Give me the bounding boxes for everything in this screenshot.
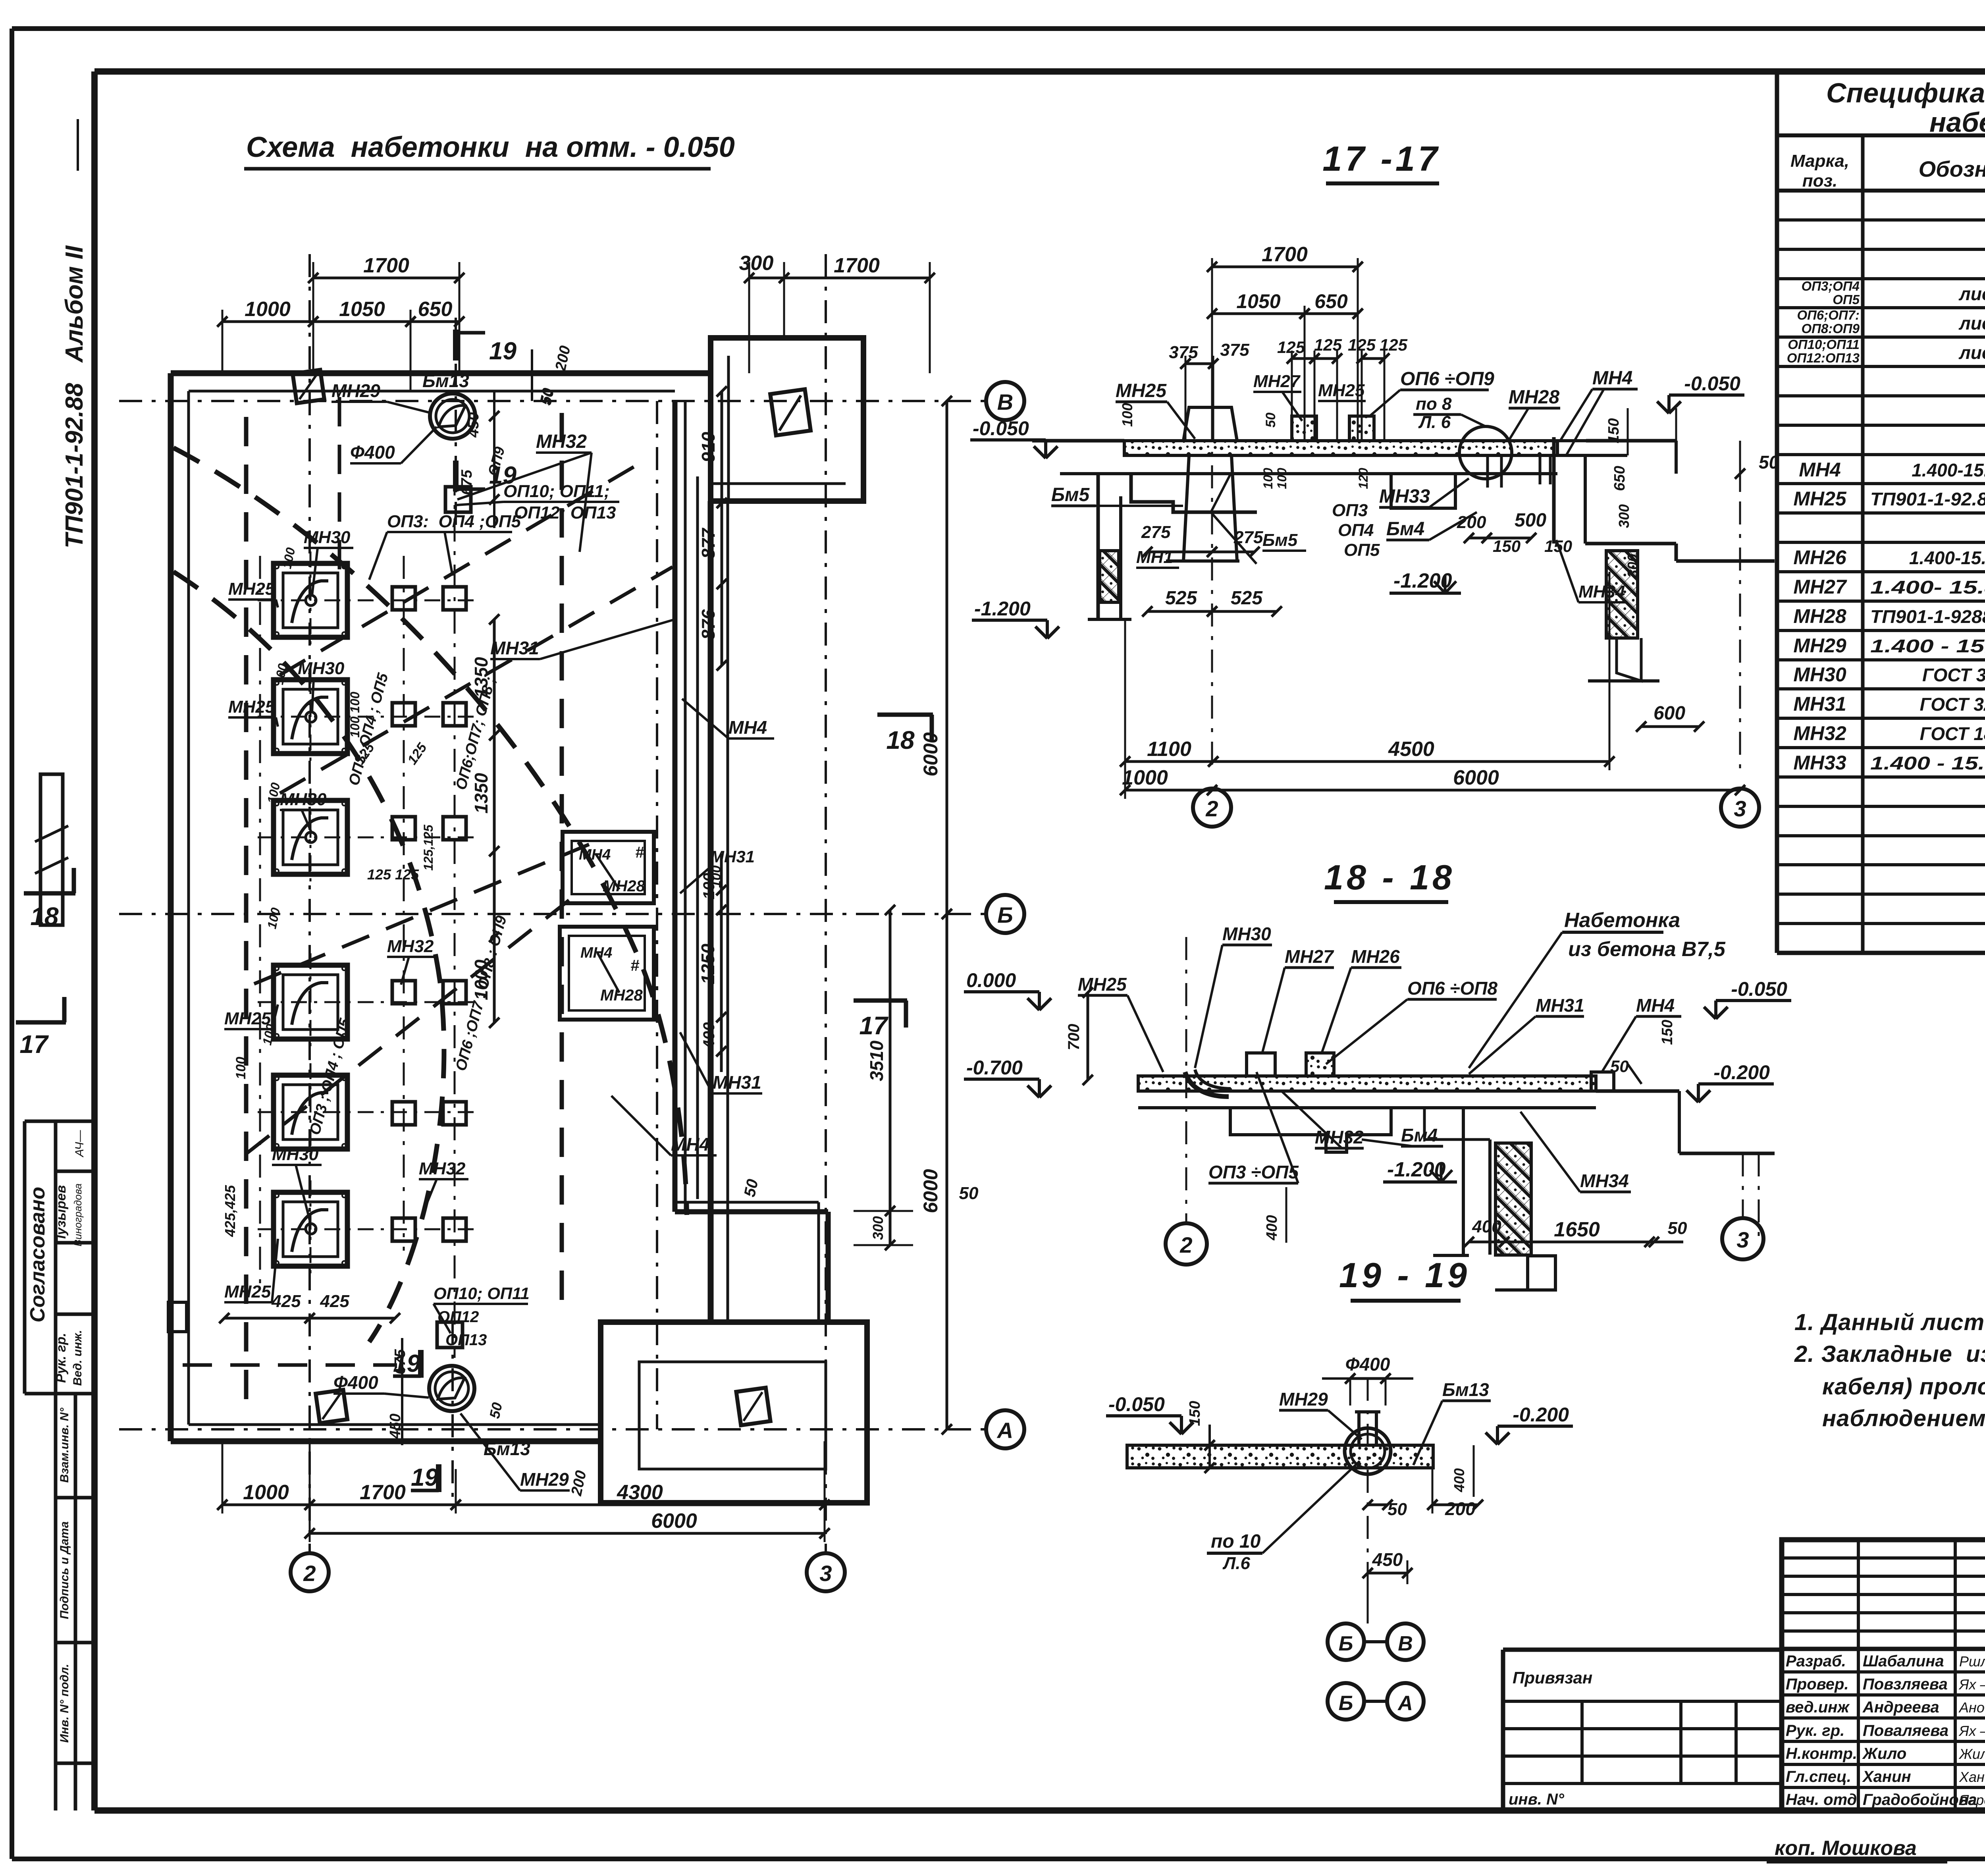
svg-text:Вед. инж.: Вед. инж. (71, 1330, 84, 1386)
svg-text:675: 675 (459, 469, 475, 495)
svg-text:425 425: 425 425 (271, 1292, 349, 1311)
bottom dimension chains (222, 1504, 310, 1506)
svg-text:МН25: МН25 (228, 579, 275, 599)
svg-text:525: 525 (1165, 588, 1197, 609)
svg-text:В: В (1398, 1632, 1413, 1655)
svg-text:19: 19 (393, 1350, 420, 1377)
svg-text:МН30: МН30 (304, 528, 351, 547)
svg-text:ОП5: ОП5 (1344, 540, 1380, 560)
svg-text:Ф400: Ф400 (1345, 1354, 1390, 1375)
svg-text:МН25: МН25 (224, 1009, 271, 1028)
МН29 pipe top (Ф400) (430, 393, 475, 439)
svg-text:120: 120 (1356, 468, 1370, 489)
svg-text:Пузырев: Пузырев (54, 1185, 69, 1245)
18-18 slab (1138, 1076, 1596, 1091)
svg-text:МН28: МН28 (600, 987, 643, 1004)
svg-text:50: 50 (1759, 452, 1779, 472)
pad on top wall left (293, 370, 324, 403)
svg-text:Ях —: Ях — (1958, 1676, 1985, 1693)
svg-text:525: 525 (1231, 588, 1263, 609)
svg-text:18: 18 (886, 726, 915, 754)
svg-text:17: 17 (859, 1011, 889, 1040)
svg-text:МН30: МН30 (1222, 924, 1271, 944)
svg-text:1700: 1700 (363, 254, 409, 277)
svg-text:Виноградова: Виноградова (72, 1184, 84, 1247)
svg-text:МН1: МН1 (1136, 548, 1173, 567)
450 dim (1368, 1572, 1407, 1575)
svg-text:МН32: МН32 (536, 431, 587, 452)
svg-text:Провер.: Провер. (1786, 1675, 1849, 1693)
svg-text:ОП3: ОП4 ;ОП5: ОП3: ОП4 ;ОП5 (387, 512, 521, 531)
right top ledge -0.050 (1586, 439, 1676, 443)
svg-text:1050: 1050 (1236, 290, 1280, 312)
plan outer walls (171, 370, 711, 376)
svg-text:Поваляева: Поваляева (1863, 1722, 1948, 1739)
svg-text:17 -17: 17 -17 (1322, 139, 1441, 178)
svg-text:МН28: МН28 (603, 877, 645, 895)
pad ОП10 bottom (437, 1322, 463, 1348)
svg-text:Схема набетонки на отм. - 0.: Схема набетонки на отм. - 0.050 (246, 131, 735, 163)
svg-text:Бм4: Бм4 (1386, 519, 1424, 540)
svg-text:200: 200 (1457, 513, 1486, 532)
svg-text:-0.050: -0.050 (973, 417, 1029, 440)
embedded frame МН25 #2 (274, 680, 347, 754)
svg-text:400: 400 (1472, 1217, 1501, 1236)
svg-text:Шабалина: Шабалина (1863, 1652, 1944, 1670)
17-17 top dims (1212, 266, 1358, 268)
svg-text:1050: 1050 (339, 298, 385, 321)
svg-text:МН32: МН32 (1793, 722, 1846, 744)
svg-text:1700: 1700 (1262, 243, 1308, 266)
svg-text:кабеля) проложить в набетонке: кабеля) проложить в набетонке на отм. -0… (1822, 1374, 1985, 1400)
svg-text:300: 300 (739, 252, 774, 275)
chain 6000/6000 (946, 401, 948, 1429)
svg-text:ОП10;ОП11: ОП10;ОП11 (1788, 337, 1860, 352)
svg-text:МН25: МН25 (1116, 380, 1167, 401)
svg-text:поз.: поз. (1802, 171, 1837, 191)
svg-text:МН25: МН25 (228, 697, 275, 717)
axis 3 (825, 254, 827, 1553)
svg-text:-1.200: -1.200 (974, 598, 1031, 620)
svg-text:ОП3: ОП3 (1332, 501, 1368, 520)
svg-text:Подпись и Дата: Подпись и Дата (58, 1521, 71, 1619)
svg-text:700: 700 (1065, 1024, 1083, 1051)
svg-text:ГОСТ 18599-83 *: ГОСТ 18599-83 * (1920, 723, 1985, 744)
svg-text:АЧ—: АЧ— (73, 1130, 86, 1158)
svg-text:Бм13: Бм13 (422, 370, 469, 391)
svg-text:50: 50 (1668, 1219, 1687, 1238)
dashed cable diagonals МН32 (280, 461, 643, 675)
svg-text:МН4: МН4 (1636, 995, 1675, 1016)
left margin inventory stamp (54, 1394, 58, 1810)
axis A (119, 1428, 986, 1431)
svg-text:Обозначение: Обозначение (1919, 156, 1985, 181)
pad in top-right wing (770, 389, 811, 435)
svg-text:1.400 - 15.81. 210 - 04: 1.400 - 15.81. 210 - 04 (1870, 753, 1985, 773)
svg-text:4300: 4300 (617, 1481, 663, 1504)
svg-text:Бм5: Бм5 (1051, 484, 1090, 505)
МН25 column centerline (259, 556, 261, 1290)
svg-text:125 125: 125 125 (367, 866, 419, 883)
БМ5 step under slab (1131, 474, 1257, 512)
svg-text:Гл.спец.: Гл.спец. (1786, 1768, 1851, 1785)
svg-text:Рук. гр.: Рук. гр. (1786, 1722, 1844, 1739)
embedded frame МН25 #3 (274, 800, 347, 874)
right vertical chain 910/877/876 (721, 391, 723, 665)
svg-text:ОП13: ОП13 (445, 1331, 487, 1349)
svg-text:#: # (635, 844, 644, 861)
svg-text:МН27: МН27 (1793, 576, 1847, 598)
svg-text:1.400- 15.81. 130 -19: 1.400- 15.81. 130 -19 (1870, 577, 1985, 598)
left end: levels (964, 990, 1039, 993)
svg-text:1. Данный лист рассматривать с: 1. Данный лист рассматривать совместно с… (1794, 1309, 1985, 1335)
svg-text:1700: 1700 (360, 1481, 406, 1504)
svg-text:МН32: МН32 (419, 1159, 466, 1178)
svg-text:100: 100 (1119, 403, 1135, 427)
bottom-right wing (601, 1322, 867, 1503)
svg-text:Бм13: Бм13 (484, 1438, 530, 1459)
svg-text:МН33: МН33 (1793, 752, 1846, 774)
svg-text:МН4: МН4 (580, 945, 612, 961)
svg-text:6000: 6000 (1453, 766, 1499, 789)
svg-text:1000: 1000 (1122, 766, 1168, 789)
svg-text:375: 375 (1220, 340, 1249, 360)
svg-text:ГОСТ 3262 - 75 *: ГОСТ 3262 - 75 * (1920, 694, 1985, 715)
svg-text:1250: 1250 (698, 943, 718, 984)
left wall below grade (1097, 474, 1100, 619)
ОП curb bumps (1292, 416, 1316, 441)
svg-text:200: 200 (1445, 1498, 1476, 1519)
svg-text:МН25: МН25 (1318, 381, 1365, 400)
niche on left wall (168, 1302, 187, 1332)
svg-text:МН33: МН33 (1379, 486, 1430, 507)
svg-text:1650: 1650 (1554, 1218, 1600, 1241)
svg-text:МН34: МН34 (1580, 1170, 1629, 1191)
svg-text:400: 400 (1451, 1468, 1467, 1492)
svg-text:-0.700: -0.700 (966, 1057, 1023, 1079)
svg-text:Нач. отд: Нач. отд (1786, 1791, 1857, 1809)
callout circle (1459, 426, 1512, 479)
svg-text:150: 150 (1493, 537, 1521, 555)
svg-text:2: 2 (1179, 1232, 1192, 1257)
top dimension chains (313, 277, 459, 280)
svg-text:МН28: МН28 (1509, 387, 1559, 408)
svg-text:ТП901-1-9288-КЖИ1-ЩП15: ТП901-1-9288-КЖИ1-ЩП15 (1870, 606, 1985, 627)
svg-text:ОП12:ОП13: ОП12:ОП13 (1787, 351, 1860, 365)
svg-text:МН30: МН30 (1793, 663, 1846, 686)
svg-text:1350: 1350 (471, 773, 491, 814)
svg-text:В: В (997, 389, 1013, 415)
svg-text:450: 450 (1372, 1549, 1403, 1570)
svg-text:150: 150 (1187, 1401, 1203, 1426)
svg-text:50: 50 (1263, 413, 1278, 428)
svg-text:набетонки на отм. 0.000: набетонки на отм. 0.000 (1929, 107, 1985, 138)
axis B (В) (119, 400, 986, 402)
svg-text:17: 17 (19, 1030, 49, 1059)
svg-text:ОП10; ОП11;: ОП10; ОП11; (503, 482, 610, 501)
svg-text:лист 5: лист 5 (1958, 342, 1985, 363)
main drawing frame (94, 68, 1985, 75)
svg-text:-0.050: -0.050 (1684, 372, 1740, 395)
embedded frame МН25 #1 (274, 563, 347, 637)
svg-text:1000: 1000 (243, 1481, 289, 1504)
centerline axis 2 (1211, 373, 1213, 770)
axis circles 2 3 of section (1193, 789, 1231, 827)
svg-text:Жило: Жило (1862, 1745, 1906, 1762)
svg-text:инв. N°: инв. N° (1509, 1791, 1565, 1808)
svg-text:100: 100 (1275, 468, 1289, 489)
svg-text:300: 300 (1616, 504, 1632, 528)
svg-text:Набетонка: Набетонка (1564, 909, 1680, 932)
svg-text:Повзляева: Повзляева (1863, 1675, 1948, 1693)
title block (1782, 1540, 1985, 1810)
axis 2 centerline (1185, 937, 1187, 1223)
svg-text:ОП8:ОП9: ОП8:ОП9 (1801, 321, 1860, 336)
svg-text:500: 500 (1515, 510, 1546, 531)
МН28 pads with labels (563, 832, 654, 903)
svg-text:Ф400: Ф400 (350, 442, 395, 463)
svg-text:-0.200: -0.200 (1513, 1404, 1569, 1426)
svg-text:ОП5: ОП5 (1833, 292, 1860, 307)
svg-text:Л. 6: Л. 6 (1418, 413, 1451, 432)
svg-text:ОП4: ОП4 (1338, 521, 1374, 540)
svg-text:Ях —: Ях — (1958, 1723, 1985, 1739)
МН4 end plate (1591, 1072, 1614, 1091)
svg-text:МН30: МН30 (298, 659, 345, 678)
svg-text:650: 650 (418, 298, 453, 321)
svg-text:150: 150 (1659, 1020, 1676, 1045)
svg-text:50: 50 (741, 1178, 761, 1199)
svg-text:100: 100 (1261, 468, 1275, 489)
svg-text:-0.050: -0.050 (1731, 978, 1787, 1000)
bottom dims 17-17 (1125, 760, 1213, 763)
bottom small dims 675 450 50 200 (401, 1338, 403, 1445)
embedded frame МН25 #4 (274, 965, 347, 1039)
top-right wing (711, 338, 863, 501)
pad near МН29 top (445, 487, 471, 512)
left side pit rectangle (40, 774, 63, 925)
svg-text:425,425: 425,425 (222, 1185, 238, 1237)
svg-text:МН34: МН34 (1578, 582, 1625, 602)
svg-text:18 - 18: 18 - 18 (1324, 858, 1455, 897)
right under-structure with pit (1462, 1108, 1465, 1255)
svg-text:Жил,: Жил, (1958, 1746, 1985, 1762)
svg-text:400: 400 (1264, 1215, 1280, 1240)
svg-text:876: 876 (698, 609, 719, 640)
svg-text:ОП3;ОП4: ОП3;ОП4 (1801, 279, 1860, 293)
svg-text:Инв. N° подл.: Инв. N° подл. (58, 1664, 71, 1743)
svg-text:2. Закладные изделия МН30 ; М: 2. Закладные изделия МН30 ; МН31 ; МН32 … (1794, 1341, 1985, 1367)
svg-text:Бм5: Бм5 (1262, 530, 1298, 550)
outer page border (12, 26, 1985, 31)
svg-text:Марка,: Марка, (1790, 151, 1849, 171)
svg-text:1.400-15.81.550-06: 1.400-15.81.550-06 (1912, 460, 1985, 480)
svg-text:МН30: МН30 (272, 1145, 319, 1164)
svg-text:1000: 1000 (245, 298, 291, 321)
section mark 19 top (453, 330, 459, 361)
svg-text:300: 300 (1625, 554, 1641, 578)
left ledge and -0.050 level (1032, 439, 1124, 443)
svg-text:МН25: МН25 (1078, 974, 1127, 995)
svg-text:3: 3 (1736, 1227, 1749, 1252)
svg-text:300: 300 (870, 1216, 886, 1240)
svg-text:Рук. гр.: Рук. гр. (54, 1333, 69, 1383)
svg-text:МН27: МН27 (1285, 946, 1334, 967)
right wall (708, 501, 714, 1322)
svg-text:50: 50 (538, 387, 557, 407)
embedded frame МН25 #6 (274, 1192, 347, 1266)
anchor studs under slab (1486, 455, 1489, 488)
svg-text:2: 2 (303, 1561, 316, 1586)
axis circles 18-18 (1166, 1223, 1207, 1265)
svg-text:коп. Мошкова: коп. Мошкова (1775, 1837, 1917, 1860)
svg-text:450: 450 (387, 1413, 404, 1439)
svg-text:-1.200: -1.200 (1393, 569, 1452, 592)
svg-text:ТП901-1-92.88 — М8.00.01: ТП901-1-92.88 — М8.00.01 (1870, 489, 1985, 509)
МН30 pipe bend on slab left (1185, 1072, 1229, 1097)
svg-text:650: 650 (1314, 290, 1348, 312)
svg-text:МН4: МН4 (728, 717, 767, 738)
svg-text:МН30: МН30 (280, 790, 327, 809)
svg-text:МН25: МН25 (224, 1282, 271, 1301)
svg-text:-0.050: -0.050 (1108, 1393, 1165, 1415)
19-19 cut lines (455, 318, 457, 528)
svg-text:0.000: 0.000 (966, 969, 1016, 991)
svg-text:2: 2 (1205, 796, 1218, 821)
svg-text:6000: 6000 (919, 1169, 942, 1213)
svg-text:МН32: МН32 (387, 937, 434, 956)
svg-text:МН29: МН29 (331, 380, 380, 401)
svg-text:МН31: МН31 (1536, 995, 1584, 1016)
svg-text:Ханин: Ханин (1862, 1768, 1911, 1785)
svg-text:600: 600 (1654, 703, 1685, 724)
svg-text:ОП6 ÷ОП8: ОП6 ÷ОП8 (1407, 978, 1497, 999)
svg-text:наблюдением электромонтажнико: наблюдением электромонтажников. (1822, 1406, 1985, 1431)
chain 3510/400 (889, 910, 892, 1245)
svg-text:3: 3 (1734, 796, 1746, 821)
svg-text:100: 100 (709, 866, 724, 888)
17-17 main slab with concrete topping (1124, 441, 1557, 455)
svg-text:450: 450 (465, 412, 482, 438)
svg-text:3510: 3510 (866, 1040, 887, 1081)
svg-text:Разраб.: Разраб. (1786, 1652, 1846, 1670)
svg-text:МН4: МН4 (1592, 368, 1632, 389)
svg-text:1.400 - 15.81. 730-03: 1.400 - 15.81. 730-03 (1870, 636, 1985, 656)
svg-text:МН27: МН27 (1253, 372, 1301, 391)
18-18 bottom dims (1469, 1241, 1504, 1244)
left margin approval stamp (25, 1120, 94, 1123)
specification table (1775, 71, 1779, 953)
channel chain 100/1250/400 (720, 854, 723, 1072)
big dashed arc inner (173, 572, 444, 1342)
svg-text:Ано .: Ано . (1958, 1699, 1985, 1716)
svg-text:650: 650 (1611, 466, 1628, 491)
МН30 stud circles (306, 595, 316, 605)
svg-text:Согласовано: Согласовано (26, 1187, 49, 1323)
svg-text:1700: 1700 (834, 254, 880, 277)
inner channel wall (673, 401, 678, 1212)
svg-text:ОП3 ÷ОП5: ОП3 ÷ОП5 (1208, 1162, 1299, 1182)
svg-text:ОП10; ОП11: ОП10; ОП11 (434, 1284, 530, 1303)
embedded frame МН25 #5 (274, 1075, 347, 1149)
svg-text:Хани: Хани (1959, 1769, 1985, 1785)
svg-text:А: А (996, 1418, 1013, 1443)
small dims near МН29 top: 200 50 450 675 (531, 349, 533, 401)
svg-text:Бм4: Бм4 (1401, 1125, 1438, 1145)
svg-text:по 10: по 10 (1211, 1531, 1261, 1552)
svg-text:лист 5: лист 5 (1958, 313, 1985, 334)
МН29 sleeve through slab (1345, 1428, 1391, 1474)
svg-text:МН4: МН4 (579, 846, 611, 863)
МН29 pipe bottom (Ф400) (429, 1366, 474, 1411)
axis 2 (308, 254, 311, 1553)
svg-text:МН29: МН29 (1279, 1389, 1328, 1409)
svg-text:вед.инж: вед.инж (1786, 1699, 1850, 1716)
svg-text:Ршлх-: Ршлх- (1959, 1653, 1985, 1670)
right ledge -0.200 (1596, 1089, 1679, 1093)
svg-text:400: 400 (700, 1022, 718, 1049)
19-19 slab (1127, 1445, 1433, 1468)
right wall of section (1552, 437, 1556, 544)
МН25 pedestal legs (1183, 455, 1189, 561)
side section marks (24, 891, 75, 896)
svg-text:МН31: МН31 (713, 1072, 761, 1093)
svg-text:4500: 4500 (1388, 738, 1434, 761)
svg-text:100: 100 (233, 1057, 249, 1080)
МН33 step (1391, 474, 1455, 508)
svg-text:19: 19 (489, 337, 516, 365)
svg-text:125,125: 125,125 (421, 824, 436, 871)
svg-text:Б: Б (1339, 1632, 1353, 1655)
svg-text:МН4: МН4 (1799, 459, 1841, 481)
svg-text:МН4: МН4 (671, 1134, 709, 1155)
svg-text:19 - 19: 19 - 19 (1339, 1255, 1470, 1295)
section mark 19 second (453, 461, 459, 492)
svg-text:877: 877 (698, 527, 719, 559)
svg-text:910: 910 (698, 432, 719, 462)
dashed verticals (244, 417, 249, 1413)
svg-text:Взам.инв. N°: Взам.инв. N° (58, 1407, 71, 1483)
svg-text:ГОСТ 3262- 75 *: ГОСТ 3262- 75 * (1922, 665, 1985, 685)
svg-text:А: А (1397, 1692, 1413, 1715)
svg-text:6000: 6000 (651, 1510, 697, 1533)
svg-text:50: 50 (1610, 1057, 1629, 1076)
svg-text:1.400-15.81. 130-30: 1.400-15.81. 130-30 (1909, 548, 1985, 568)
small pads ОП (392, 587, 415, 610)
svg-text:Бм13: Бм13 (1442, 1379, 1489, 1400)
axis Б (119, 913, 986, 915)
svg-text:375: 375 (1169, 343, 1198, 362)
svg-text:ОП6 ÷ОП9: ОП6 ÷ОП9 (1400, 368, 1494, 389)
Ф400 dim (1350, 1377, 1386, 1380)
svg-text:лист 5: лист 5 (1958, 283, 1985, 304)
svg-text:МН26: МН26 (1351, 946, 1400, 967)
svg-text:ОП6;ОП7:: ОП6;ОП7: (1797, 308, 1860, 322)
svg-text:Спецификация к схеме р: Спецификация к схеме расположения (1826, 77, 1985, 108)
svg-text:МН31: МН31 (710, 847, 755, 866)
big dashed arc outer (well wall) (173, 448, 687, 1215)
svg-text:#: # (630, 957, 640, 974)
svg-text:ТП901-1-92.88 Альбом II: ТП901-1-92.88 Альбом II (61, 245, 88, 548)
svg-text:1100: 1100 (1147, 738, 1191, 761)
svg-text:Л.6: Л.6 (1222, 1554, 1250, 1573)
svg-text:50: 50 (959, 1184, 979, 1203)
svg-text:ОП12; ОП13: ОП12; ОП13 (514, 503, 616, 523)
svg-text:МН29: МН29 (1793, 634, 1846, 657)
axis circles В Б А (986, 382, 1024, 420)
svg-text:3: 3 (819, 1561, 832, 1586)
svg-text:Б: Б (1339, 1692, 1353, 1715)
